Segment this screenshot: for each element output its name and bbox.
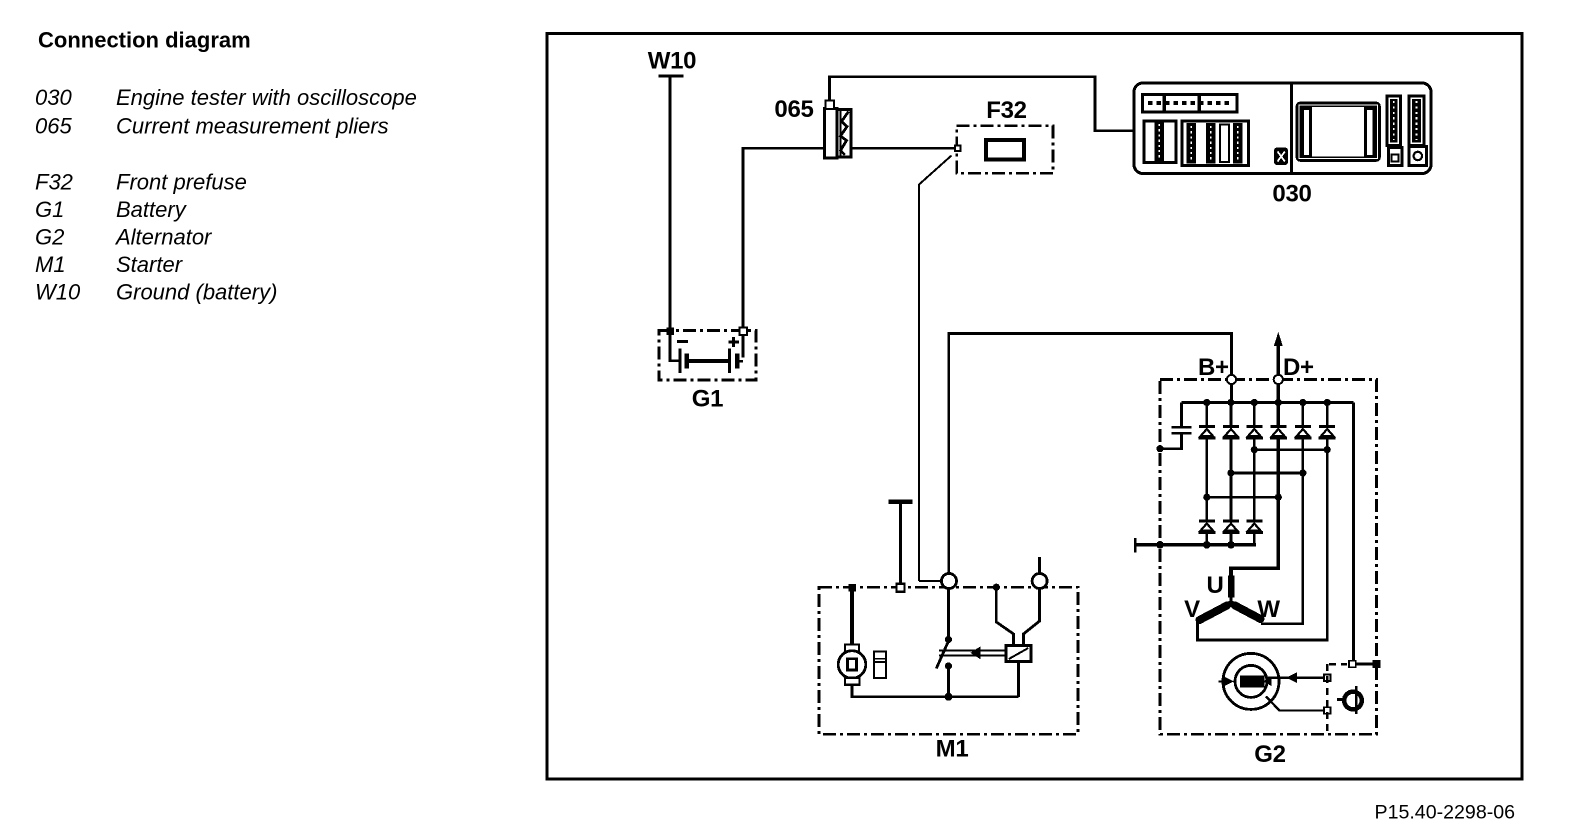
phase link row 1 <box>1254 448 1327 451</box>
stator winding V <box>1200 606 1228 621</box>
pliers clamp jaw line <box>840 110 842 156</box>
rotor winding bar <box>1240 675 1265 687</box>
svg-text:Ground (battery): Ground (battery) <box>116 280 277 305</box>
fuse element F32 <box>986 140 1024 160</box>
diode D6 <box>1319 427 1336 438</box>
battery cell plates <box>678 348 681 373</box>
svg-text:U: U <box>1206 572 1223 599</box>
svg-text:Engine tester with oscilloscop: Engine tester with oscilloscope <box>116 85 417 110</box>
wire B plus riser from terminal 30 <box>949 334 1232 574</box>
indicator lamp <box>1344 692 1362 710</box>
svg-text:065: 065 <box>35 114 72 139</box>
svg-text:F32: F32 <box>986 97 1026 124</box>
solenoid funnel <box>996 589 1039 646</box>
svg-text:M1: M1 <box>35 252 66 277</box>
battery link bar <box>687 359 731 363</box>
node motor branch at box edge <box>849 584 857 592</box>
solenoid actuator link <box>939 650 1006 652</box>
030 button 1 <box>1389 148 1403 166</box>
brush pack component <box>874 652 886 679</box>
switch blade <box>936 641 948 669</box>
M1 terminal post with cap <box>899 504 902 586</box>
diode D5 <box>1294 427 1311 438</box>
svg-text:P15.40-2298-06: P15.40-2298-06 <box>1375 802 1516 824</box>
wire solenoid to bottom <box>1017 662 1020 697</box>
wire pliers to F32 <box>851 147 955 150</box>
node bus frame crossing <box>1156 541 1164 549</box>
030 slider 2 <box>1409 96 1424 146</box>
svg-text:B+: B+ <box>1198 354 1229 381</box>
wire pliers top to tester 030 <box>830 77 1135 131</box>
phase column 1 <box>1206 403 1209 545</box>
phase column V <box>1198 403 1328 641</box>
svg-text:F32: F32 <box>35 170 73 195</box>
svg-text:G1: G1 <box>35 197 64 222</box>
svg-text:W10: W10 <box>35 280 81 305</box>
stator winding U <box>1228 576 1235 598</box>
regulator sub-box <box>1327 664 1347 734</box>
rotor axis stub left <box>1219 680 1241 682</box>
capacitor C <box>1180 403 1183 427</box>
phase column W <box>1261 403 1303 624</box>
border frame <box>547 34 1522 780</box>
wire rotor diagonal to regulator <box>1266 697 1324 711</box>
diode D8 <box>1223 521 1240 532</box>
wire bottom bus corner <box>1253 532 1256 545</box>
node bottom junction <box>945 693 953 701</box>
diode D7 <box>1198 521 1215 532</box>
ground bus B minus <box>1135 543 1256 546</box>
terminal 50 stub <box>1038 557 1041 574</box>
node bus junctions <box>1203 399 1331 406</box>
engine tester 030 body <box>1134 83 1431 174</box>
phase link row 3 <box>1207 496 1279 499</box>
node regulator top <box>1349 661 1356 668</box>
phase link row 2 <box>1231 472 1303 475</box>
M1 box <box>819 587 1078 734</box>
terminal 30 circle <box>942 574 957 589</box>
030 button 2 <box>1409 147 1427 166</box>
node B+ box entry <box>1227 375 1236 384</box>
030 panel divider <box>1290 83 1293 174</box>
030 module 2 <box>1182 121 1249 166</box>
wire W10 to battery minus <box>670 78 679 361</box>
F32 box <box>957 126 1053 174</box>
rotor G2 <box>1223 653 1279 709</box>
node post at box edge <box>896 584 904 592</box>
svg-text:G2: G2 <box>1254 741 1285 768</box>
svg-text:G1: G1 <box>692 386 723 413</box>
030 oscilloscope screen <box>1297 103 1380 161</box>
svg-text:Current measurement pliers: Current measurement pliers <box>116 114 389 139</box>
ground bus end cap <box>1134 538 1137 553</box>
wire below switch <box>947 666 950 697</box>
node battery minus terminal <box>667 328 675 336</box>
svg-text:Connection diagram: Connection diagram <box>38 28 251 53</box>
node switch bottom <box>945 662 952 669</box>
rotor right brush <box>1263 677 1272 686</box>
solenoid coil M1 <box>1006 646 1031 662</box>
svg-text:M1: M1 <box>936 736 969 763</box>
node switch top <box>945 636 952 643</box>
wire contact column <box>947 589 950 639</box>
rotor left brush arrow <box>1223 676 1235 687</box>
G2 box <box>1160 380 1377 735</box>
wire motor to bottom <box>852 685 1019 697</box>
plus sign <box>729 337 740 347</box>
svg-text:V: V <box>1184 596 1200 623</box>
current pliers 065 body <box>825 109 838 159</box>
phase column 2 <box>1230 403 1233 545</box>
svg-text:065: 065 <box>774 96 813 123</box>
pliers top nub <box>826 101 835 110</box>
minus sign <box>677 340 688 343</box>
stator winding W <box>1235 606 1261 620</box>
svg-text:030: 030 <box>1272 181 1311 208</box>
svg-text:W10: W10 <box>648 48 696 75</box>
battery plus stub <box>739 360 743 363</box>
030 slider 1 <box>1387 96 1401 146</box>
030 knob <box>1274 148 1288 166</box>
node capacitor to frame <box>1156 445 1163 452</box>
wire brush to regulator <box>1266 676 1324 678</box>
030 connector strip <box>1143 95 1238 113</box>
svg-text:G2: G2 <box>35 225 64 250</box>
svg-text:Front prefuse: Front prefuse <box>116 170 247 195</box>
svg-text:Battery: Battery <box>116 197 188 222</box>
030 module 1 <box>1144 121 1176 163</box>
actuator arrow <box>971 646 981 659</box>
svg-text:030: 030 <box>35 85 72 110</box>
diode D9 <box>1246 521 1263 532</box>
node regulator input bottom <box>1324 707 1330 713</box>
wire bus to regulator <box>1352 403 1355 661</box>
D+ wire <box>1231 343 1278 577</box>
node regulator input top <box>1324 675 1330 681</box>
svg-text:W: W <box>1257 596 1280 623</box>
D+ arrow up <box>1274 332 1283 346</box>
starter motor M1 <box>845 645 859 652</box>
diode D1 <box>1198 427 1215 438</box>
wire motor branch <box>850 587 854 645</box>
node battery plus terminal <box>740 328 748 336</box>
phase column 3 <box>1253 403 1256 545</box>
G1 box <box>659 331 756 381</box>
svg-text:Starter: Starter <box>116 252 184 277</box>
wire F32 tap diagonal down to M1 <box>919 156 952 582</box>
svg-text:D+: D+ <box>1283 354 1314 381</box>
node funnel top <box>993 584 1000 591</box>
pliers zigzag <box>841 112 849 156</box>
node frame junction <box>1373 660 1381 668</box>
star node <box>1228 600 1234 606</box>
W10 ground bar <box>659 74 684 77</box>
wire F32 branch into terminal 30 <box>919 580 941 582</box>
wire battery plus up to pliers line <box>743 148 825 357</box>
B+ bus bar <box>1182 401 1354 404</box>
wire regulator to frame <box>1356 663 1377 666</box>
diode D4 <box>1270 427 1287 438</box>
node D+ box entry <box>1274 375 1283 384</box>
terminal 50 circle <box>1032 574 1047 589</box>
diode D2 <box>1223 427 1240 438</box>
node F32 connector <box>955 146 961 152</box>
svg-text:Alternator: Alternator <box>114 225 213 250</box>
diode D3 <box>1246 427 1263 438</box>
brush wire arrow <box>1287 672 1298 683</box>
